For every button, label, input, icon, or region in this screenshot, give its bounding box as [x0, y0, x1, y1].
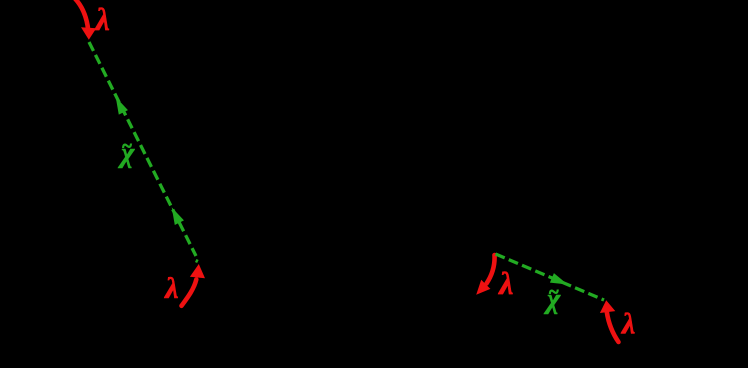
wire: neutralino chi1 dashed green line (left) — [89, 42, 196, 256]
red arrowhead (right diagram, right vertex) — [600, 300, 615, 313]
svg-text:λ: λ — [620, 308, 635, 341]
svg-text:λ: λ — [94, 1, 110, 37]
wire: red curved arrow shaft (right diagram, right vertex) — [607, 312, 619, 342]
green arrowhead C on chi2 line — [551, 274, 566, 283]
red arrowhead (top-left vertex) — [81, 27, 96, 40]
svg-text:λ: λ — [497, 265, 513, 301]
wire: red curved arrow shaft (top-left vertex) — [75, 0, 89, 30]
red arrowhead (right diagram, left vertex) — [476, 280, 490, 295]
wire: red curved arrow shaft (bottom-left vertex) — [182, 280, 197, 306]
svg-text:λ: λ — [163, 272, 178, 305]
green arrowhead B on chi1 line — [173, 210, 183, 224]
wire: neutralino chi2 dashed green line (right) — [496, 254, 605, 300]
red arrowhead (bottom-left vertex) — [190, 264, 205, 278]
green arrowhead A on chi1 line — [117, 99, 127, 113]
wire: red curved arrow shaft (right diagram, left vertex) — [487, 255, 495, 284]
svg-text:~: ~ — [122, 136, 132, 156]
wire: last dash speck of chi1 line — [195, 259, 199, 263]
svg-text:~: ~ — [549, 281, 559, 301]
